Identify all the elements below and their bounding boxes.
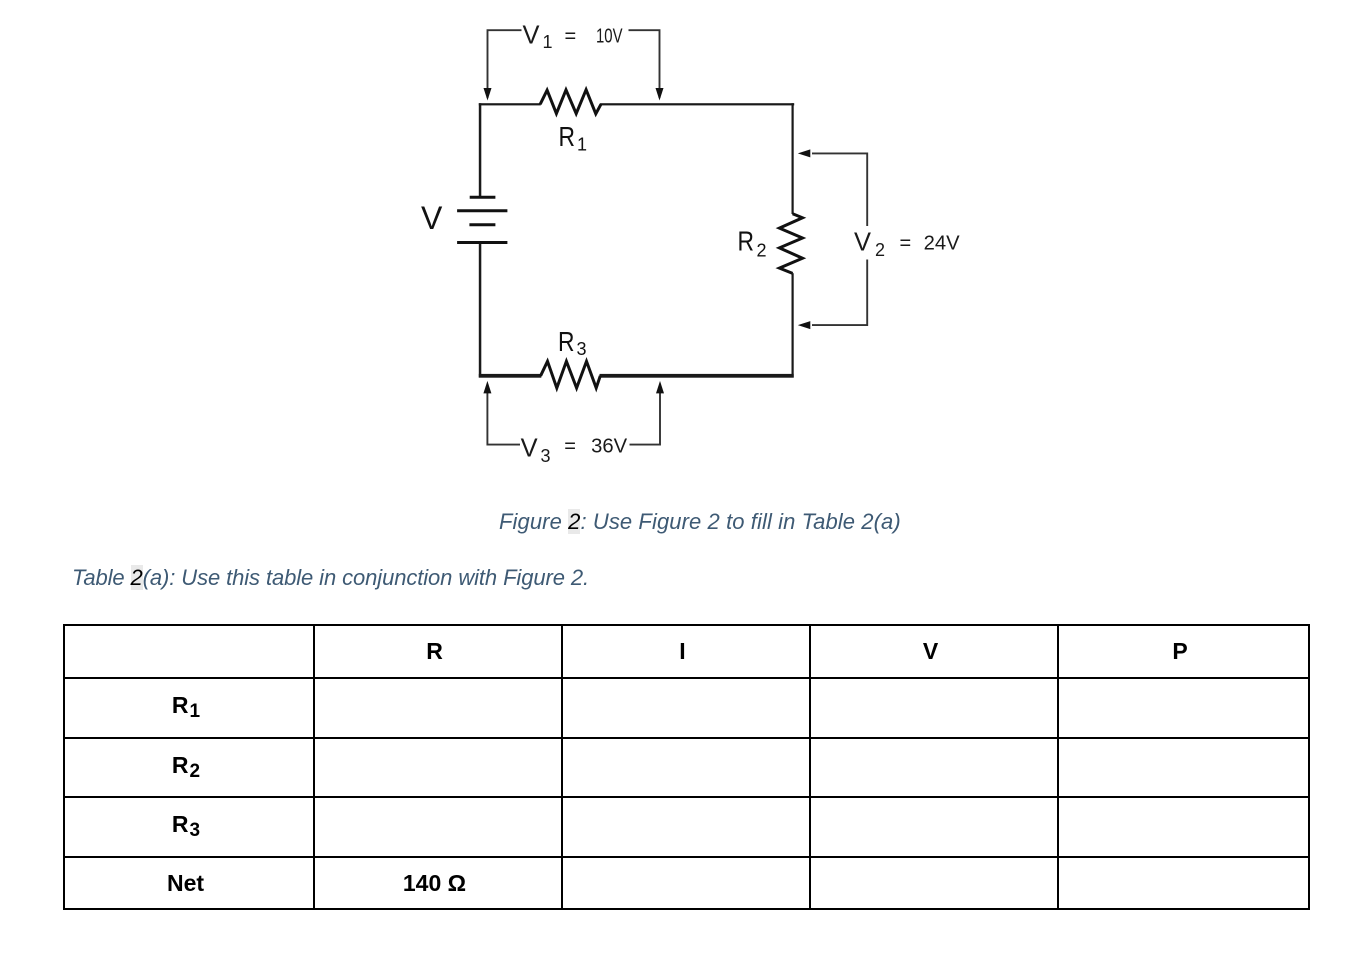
wire: top (node between battery + and R1, and R1 to right rail): [479, 103, 794, 105]
voltage bracket V1 (measurement arrows over R1): [488, 30, 660, 98]
arrow V3 left: [483, 381, 491, 394]
arrow V2 top: [798, 149, 811, 157]
voltage bracket V3 (measurement arrows under R3): [487, 393, 660, 445]
wire: bottom (bottom-left corner to R3 and R3 to bottom-right corner): [479, 374, 794, 378]
svg-text:2: 2: [757, 240, 767, 260]
svg-text:3: 3: [577, 339, 587, 359]
svg-text:1: 1: [543, 32, 553, 52]
arrow V2 bottom: [798, 321, 811, 329]
table caption: [72, 566, 589, 590]
svg-text:V: V: [854, 227, 872, 257]
resistor R2: [779, 214, 802, 274]
arrow V3 right: [656, 381, 664, 394]
svg-text:R: R: [559, 121, 576, 152]
resistor R1: [540, 90, 601, 114]
figure caption: [499, 510, 901, 534]
svg-text:V: V: [421, 200, 443, 236]
svg-text:3: 3: [541, 446, 551, 466]
battery V: [457, 197, 507, 242]
label R2: [738, 226, 767, 261]
svg-text:=: =: [564, 436, 576, 458]
label R3: [558, 326, 587, 359]
svg-text:=: =: [900, 233, 912, 255]
svg-text:24V: 24V: [924, 233, 961, 255]
value label V1 = 10V: [523, 19, 623, 52]
svg-text:=: =: [565, 26, 577, 48]
svg-text:V: V: [521, 433, 539, 463]
svg-text:V: V: [523, 19, 541, 49]
arrow V1 right: [656, 88, 664, 101]
label R1: [559, 121, 588, 155]
value label V3 = 36V: [521, 433, 628, 467]
data table: [63, 624, 1310, 910]
svg-text:R: R: [558, 326, 575, 357]
svg-text:36V: 36V: [591, 436, 628, 458]
svg-text:R: R: [738, 226, 755, 257]
svg-text:2: 2: [875, 240, 885, 260]
wire: right rail: [792, 103, 794, 377]
voltage bracket V2 (measurement arrows across R2): [812, 153, 867, 325]
label V (battery): [421, 200, 443, 236]
wire: left rail upper (battery + up to top-left corner): [479, 103, 482, 198]
svg-text:10V: 10V: [596, 26, 623, 48]
resistor R3: [541, 361, 601, 388]
svg-text:1: 1: [577, 135, 587, 155]
wire: left rail lower (battery - down to bottom-left corner): [479, 244, 482, 378]
value label V2 = 24V: [854, 227, 960, 261]
arrow V1 left: [484, 88, 492, 101]
